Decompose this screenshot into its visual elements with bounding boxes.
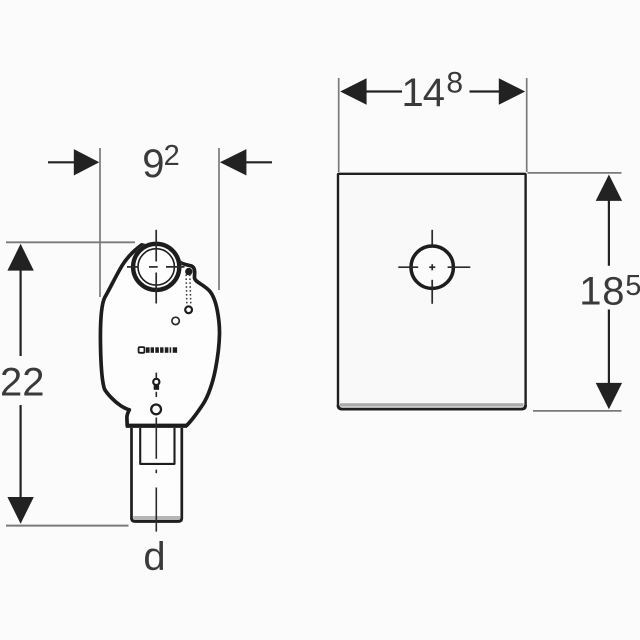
inlet crosshair vertical lower — [155, 273, 157, 304]
plate crosshair vertical upper — [431, 230, 433, 245]
plate crosshair horizontal left — [398, 266, 418, 268]
small hole lower — [151, 405, 161, 415]
arrow left of dimension 92 — [74, 149, 100, 175]
geberit logo emblem — [139, 347, 145, 353]
geberit logo text — [146, 347, 177, 353]
outlet pipe bottom edge — [132, 518, 182, 521]
svg-text:2: 2 — [164, 140, 180, 172]
dimension line 148 left segment — [366, 90, 403, 92]
centerline dash above keyhole — [155, 373, 157, 379]
arrow left of dimension 148 — [340, 78, 366, 104]
svg-text:5: 5 — [625, 270, 640, 302]
svg-text:22: 22 — [0, 361, 45, 405]
extension line bottom of dimension 22 — [6, 525, 129, 527]
dimension line 185 lower segment — [608, 310, 610, 385]
dimension line 92 left segment — [48, 161, 74, 163]
inlet circle white mask — [131, 242, 182, 293]
plate crosshair vertical lower — [431, 280, 433, 304]
svg-text:4: 4 — [423, 71, 445, 115]
plate circle — [411, 246, 453, 288]
extension line right of dimension 148 — [526, 78, 528, 172]
arrow top of dimension 22 — [7, 244, 33, 271]
flush plate rectangle — [338, 174, 526, 409]
extension line top of dimension 22 — [6, 241, 135, 243]
outlet pipe outer walls — [132, 428, 182, 521]
outlet pipe end gray band — [133, 516, 180, 520]
centerline long dash below pipe — [155, 488, 157, 532]
inlet crosshair horizontal right — [166, 266, 185, 268]
svg-text:1: 1 — [579, 270, 601, 314]
dimension line 22 upper segment — [20, 269, 22, 356]
arrow bottom of dimension 185 — [596, 383, 622, 409]
centerline long dash through pipe — [155, 418, 157, 459]
trap body outline — [100, 245, 219, 426]
inlet crosshair vertical upper — [155, 230, 157, 262]
arrow right of dimension 148 — [499, 78, 525, 104]
extension line left of dimension 148 — [338, 78, 340, 172]
svg-text:8: 8 — [446, 67, 463, 100]
arrow bottom of dimension 22 — [7, 497, 33, 524]
arrow top of dimension 185 — [596, 175, 622, 201]
inlet circle inner ring — [138, 249, 174, 285]
flush plate bottom gray band — [340, 403, 524, 406]
dimension line 22 lower segment — [20, 405, 22, 498]
dimension line 92 right segment — [246, 161, 272, 163]
svg-text:9: 9 — [142, 142, 164, 186]
trap bottom edge line — [126, 425, 187, 428]
extension line bottom of dimension 185 — [533, 410, 622, 412]
small hole upper — [172, 317, 179, 324]
inlet crosshair horizontal left outer — [127, 266, 138, 268]
svg-text:8: 8 — [602, 270, 624, 314]
plate crosshair horizontal right — [448, 266, 471, 268]
chain right dotted strand — [190, 275, 191, 306]
plate crosshair vertical center tick — [431, 264, 433, 270]
inlet crosshair horizontal center tick — [149, 266, 158, 268]
outlet pipe inner socket rectangle — [140, 428, 174, 464]
arrow right of dimension 92 — [220, 149, 247, 175]
svg-text:1: 1 — [402, 71, 424, 115]
centerline dash below keyhole — [155, 392, 157, 397]
chain left dotted strand — [185, 275, 188, 306]
extension line left of dimension 92 — [99, 148, 101, 297]
chain attachment knob — [185, 268, 192, 275]
svg-text:d: d — [143, 535, 165, 579]
dimension line 185 upper segment — [608, 200, 610, 266]
keyhole hook feature — [153, 379, 159, 385]
extension line right of dimension 92 — [218, 148, 220, 290]
chain end ball — [185, 306, 192, 313]
dimension line 148 right segment — [470, 90, 500, 92]
plate crosshair horizontal center tick — [429, 266, 435, 268]
flush plate bottom edge — [338, 405, 526, 409]
centerline dot — [155, 470, 157, 474]
inlet circle outer ring — [133, 244, 179, 290]
extension line top of dimension 185 — [528, 172, 622, 174]
